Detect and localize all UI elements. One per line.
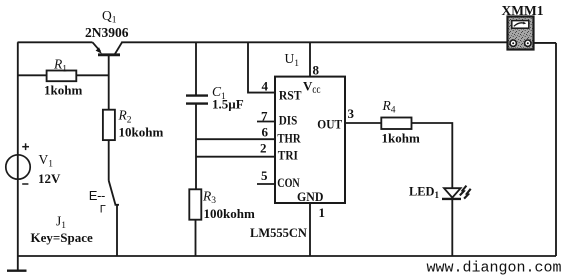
svg-text:Γ: Γ (100, 203, 106, 215)
wire GND pin 1 (309, 203, 311, 256)
svg-text:1: 1 (319, 205, 326, 220)
wire DIS pin 7 stub (257, 121, 275, 123)
wire R2 to switch (108, 140, 110, 180)
wire right rail (555, 43, 557, 256)
svg-text:12V: 12V (38, 171, 61, 186)
svg-text:7: 7 (261, 108, 268, 123)
multimeter XMM1 (508, 17, 534, 50)
svg-text:1kohm: 1kohm (382, 131, 420, 146)
svg-text:1kohm: 1kohm (44, 83, 82, 98)
svg-text:LED1: LED1 (409, 185, 439, 201)
wire R3 to bottom rail (195, 220, 197, 256)
svg-text:6: 6 (262, 125, 269, 140)
wire LED to bottom rail (451, 199, 453, 256)
svg-text:2: 2 (260, 140, 267, 155)
svg-text:Key=Space: Key=Space (31, 230, 94, 245)
op-amp U1 timer IC box (275, 77, 345, 203)
wire left rail (17, 42, 19, 270)
svg-text:J1: J1 (56, 214, 66, 232)
svg-text:RST: RST (279, 88, 302, 103)
svg-text:LM555CN: LM555CN (250, 226, 307, 240)
svg-text:V1: V1 (39, 152, 54, 170)
capacitor C1 (186, 96, 208, 104)
wire R1 left (18, 74, 47, 76)
wire RST pin 4 (248, 42, 275, 92)
transistor Q1 (93, 42, 123, 111)
resistor R4 (381, 118, 411, 130)
svg-text:10kohm: 10kohm (119, 125, 164, 140)
wire Vcc pin 8 (309, 42, 311, 76)
resistor R3 (189, 189, 201, 219)
svg-text:1.5µF: 1.5µF (212, 97, 244, 112)
svg-text:U1: U1 (285, 51, 300, 69)
switch J1 (109, 181, 119, 257)
svg-text:GND: GND (297, 189, 323, 204)
resistor R1 (47, 71, 77, 82)
svg-text:2N3906: 2N3906 (85, 25, 129, 40)
svg-text:5: 5 (261, 168, 268, 183)
wire R4 to LED (411, 123, 452, 188)
wire C1 to R3 (195, 104, 197, 189)
wire THR pin 6 (196, 138, 275, 140)
wire CON pin 5 stub (257, 183, 275, 185)
wire top rail left segment (18, 41, 93, 43)
svg-text:E--: E-- (89, 188, 105, 203)
svg-text:R2: R2 (118, 108, 132, 126)
svg-text:8: 8 (313, 63, 320, 78)
svg-text:TRI: TRI (278, 148, 298, 163)
svg-text:100kohm: 100kohm (204, 206, 255, 221)
wire OUT pin 3 (345, 122, 381, 124)
V1 minus sign (22, 183, 28, 185)
resistor R2 (103, 110, 115, 140)
svg-text:R3: R3 (202, 188, 216, 206)
svg-text:THR: THR (277, 131, 301, 146)
svg-text:CON: CON (277, 175, 300, 190)
wire top rail right segment (121, 41, 507, 43)
ground (7, 270, 27, 272)
svg-text:Q1: Q1 (102, 8, 117, 26)
wire XMM1 right (534, 42, 557, 44)
power source V1 (6, 155, 30, 179)
wire R1 right (76, 74, 109, 76)
svg-text:3: 3 (348, 106, 355, 121)
wire TRI pin 2 (196, 156, 275, 158)
svg-text:XMM1: XMM1 (502, 3, 544, 18)
LED LED1 (442, 186, 471, 199)
svg-text:DIS: DIS (279, 113, 298, 128)
svg-text:www.diangon.com: www.diangon.com (427, 260, 562, 277)
V1 plus sign (22, 143, 29, 150)
svg-text:R4: R4 (382, 98, 396, 116)
svg-text:OUT: OUT (317, 116, 342, 131)
svg-text:4: 4 (262, 79, 269, 94)
wire bottom rail (18, 255, 557, 257)
wire C1 branch top (195, 42, 197, 95)
